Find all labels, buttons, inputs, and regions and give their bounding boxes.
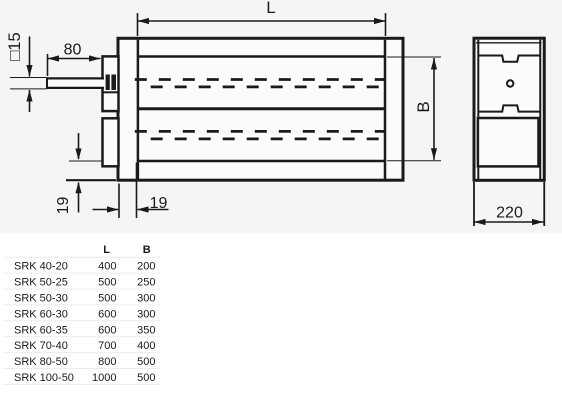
- svg-text:700: 700: [98, 340, 116, 352]
- svg-text:400: 400: [98, 261, 116, 273]
- svg-text:19: 19: [55, 197, 72, 215]
- svg-text:500: 500: [137, 356, 155, 368]
- svg-text:250: 250: [137, 277, 155, 289]
- svg-text:400: 400: [137, 340, 155, 352]
- svg-text:200: 200: [137, 261, 155, 273]
- svg-text:1000: 1000: [92, 372, 116, 384]
- svg-text:300: 300: [137, 308, 155, 320]
- svg-text:SRK 40-20: SRK 40-20: [14, 261, 68, 273]
- svg-text:800: 800: [98, 356, 116, 368]
- svg-text:SRK 50-30: SRK 50-30: [14, 293, 68, 305]
- svg-text:SRK 50-25: SRK 50-25: [14, 277, 68, 289]
- svg-text:SRK 60-30: SRK 60-30: [14, 308, 68, 320]
- svg-text:SRK 70-40: SRK 70-40: [14, 340, 68, 352]
- svg-text:SRK 80-50: SRK 80-50: [14, 356, 68, 368]
- svg-text:SRK 60-35: SRK 60-35: [14, 324, 68, 336]
- svg-text:500: 500: [98, 277, 116, 289]
- svg-text:600: 600: [98, 324, 116, 336]
- svg-text:500: 500: [137, 372, 155, 384]
- svg-text:B: B: [414, 101, 433, 112]
- svg-text:220: 220: [496, 205, 523, 222]
- svg-text:SRK 100-50: SRK 100-50: [14, 372, 74, 384]
- svg-text:B: B: [143, 244, 151, 256]
- svg-text:350: 350: [137, 324, 155, 336]
- svg-text:600: 600: [98, 308, 116, 320]
- svg-text:19: 19: [150, 195, 168, 212]
- svg-text:□15: □15: [6, 32, 24, 60]
- svg-text:300: 300: [137, 293, 155, 305]
- svg-text:L: L: [103, 244, 110, 256]
- svg-text:80: 80: [64, 42, 82, 59]
- svg-text:L: L: [266, 0, 275, 17]
- svg-text:500: 500: [98, 293, 116, 305]
